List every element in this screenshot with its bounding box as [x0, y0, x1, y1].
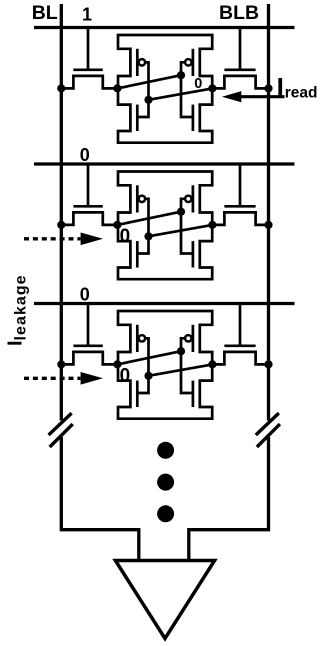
junction dot left gate connector	[144, 96, 152, 104]
bitline BL lower segment and bottom bus left part into sense amp	[61, 437, 139, 561]
wordline WL1	[34, 26, 295, 29]
access transistor left (pass gate) gate stem	[87, 304, 90, 346]
cross-coupling wire left inverter gates to node QB	[149, 88, 213, 99]
right inverter PMOS gate plate	[192, 49, 195, 76]
access transistor right (pass gate) gate stem	[239, 28, 242, 70]
cross-coupled inverter pair outline (VDD/GND rails and transistor channels)	[118, 35, 212, 143]
node Q junction dot	[113, 221, 121, 229]
junction dot on BLB	[264, 360, 272, 368]
junction dot left gate connector	[144, 372, 152, 380]
right inverter gate connector wire	[181, 199, 193, 254]
I_read current arrow tail	[240, 95, 285, 98]
right inverter PMOS bubble	[185, 59, 191, 65]
left inverter PMOS gate plate	[136, 49, 139, 76]
right inverter PMOS bubble	[185, 196, 191, 202]
left inverter gate connector wire	[137, 338, 148, 393]
ellipsis dot 3	[157, 505, 174, 522]
left inverter PMOS bubble	[139, 59, 145, 65]
ellipsis dot 1	[157, 442, 174, 459]
left inverter PMOS gate plate	[136, 325, 139, 352]
node Q junction dot	[113, 360, 121, 368]
wordline WL2	[34, 162, 295, 165]
access transistor right (pass gate) gate stem	[239, 164, 242, 206]
cross-coupling wire node Q to right inverter gates	[117, 75, 181, 88]
left inverter PMOS gate plate	[136, 185, 139, 212]
junction dot on BLB	[264, 84, 272, 92]
leakage current arrowhead	[81, 233, 103, 246]
access transistor right channel with stubs and wires to node QB and BLB	[212, 212, 268, 225]
svg-text:BL: BL	[32, 2, 58, 24]
cross-coupling wire node Q to right inverter gates	[117, 351, 181, 364]
left inverter PMOS bubble	[139, 335, 145, 341]
ellipsis dot 2	[157, 474, 174, 491]
node QB junction dot	[208, 360, 216, 368]
SRAM cell 1	[34, 4, 317, 142]
right inverter gate connector wire	[181, 338, 193, 393]
access transistor right (pass gate) gate stem	[239, 304, 242, 346]
junction dot on BL	[57, 84, 65, 92]
break symbol slash 2 on BLB	[257, 424, 280, 447]
left inverter gate connector wire	[137, 62, 148, 117]
wordline WL3	[34, 302, 295, 305]
svg-text:BLB: BLB	[219, 2, 259, 24]
access transistor right gate plate	[224, 344, 255, 347]
junction dot on BL	[57, 221, 65, 229]
junction dot left gate connector	[144, 232, 152, 240]
cross-coupled inverter pair outline (VDD/GND rails and transistor channels)	[118, 311, 212, 419]
access transistor right gate plate	[224, 68, 255, 71]
svg-text:0: 0	[80, 284, 90, 304]
leakage current dashed arrow tail	[24, 377, 81, 380]
bitline BLB upper segment	[267, 4, 270, 421]
sense amplifier triangle	[115, 561, 214, 639]
junction dot right gate connector	[177, 347, 185, 355]
svg-text:Ileakage: Ileakage	[5, 274, 30, 346]
junction dot right gate connector	[177, 208, 185, 216]
junction dot on BL	[57, 360, 65, 368]
access transistor right gate plate	[224, 205, 255, 208]
left inverter gate connector wire	[137, 199, 148, 254]
I_read current arrowhead	[222, 91, 241, 102]
cross-coupling wire node Q to right inverter gates	[117, 212, 181, 225]
access transistor left channel with source/drain stubs and wires to BL and node Q	[61, 212, 118, 225]
right inverter PMOS gate plate	[192, 325, 195, 352]
access transistor left channel with source/drain stubs and wires to BL and node Q	[61, 76, 118, 89]
access transistor left gate plate	[73, 68, 102, 71]
bitline BL upper segment	[60, 4, 63, 421]
svg-text:1: 1	[82, 4, 92, 24]
access transistor left channel with source/drain stubs and wires to BL and node Q	[61, 352, 118, 365]
bitline BLB lower segment and bottom bus right part into sense amp	[189, 437, 269, 561]
svg-text:read: read	[285, 84, 318, 101]
node QB junction dot	[208, 84, 216, 92]
svg-text:0: 0	[80, 145, 90, 165]
svg-text:0: 0	[120, 226, 131, 247]
cross-coupling wire left inverter gates to node QB	[149, 225, 213, 236]
access transistor left gate plate	[73, 344, 102, 347]
node Q junction dot	[113, 84, 121, 92]
junction dot right gate connector	[177, 71, 185, 79]
node QB junction dot	[208, 221, 216, 229]
access transistor right channel with stubs and wires to node QB and BLB	[212, 352, 268, 365]
left inverter NMOS gate plate	[136, 105, 139, 131]
left inverter PMOS bubble	[139, 196, 145, 202]
right inverter PMOS gate plate	[192, 185, 195, 212]
access transistor left (pass gate) gate stem	[87, 164, 90, 206]
access transistor right channel with stubs and wires to node QB and BLB	[212, 76, 268, 89]
cross-coupled inverter pair outline (VDD/GND rails and transistor channels)	[118, 172, 212, 280]
right inverter NMOS gate plate	[192, 381, 195, 407]
svg-text:I: I	[277, 72, 284, 102]
SRAM cell 2	[24, 145, 295, 279]
left inverter NMOS gate plate	[136, 241, 139, 267]
svg-text:0: 0	[120, 365, 131, 386]
access transistor left gate plate	[73, 205, 102, 208]
leakage current dashed arrow tail	[24, 237, 81, 240]
right inverter gate connector wire	[181, 62, 193, 117]
junction dot on BLB	[264, 221, 272, 229]
right inverter PMOS bubble	[185, 335, 191, 341]
left inverter NMOS gate plate	[136, 381, 139, 407]
svg-text:0: 0	[194, 76, 202, 92]
break symbol slash 1 on BLB	[256, 413, 279, 435]
break symbol slash 1 on BL	[49, 413, 72, 435]
cross-coupling wire left inverter gates to node QB	[149, 364, 213, 375]
break symbol slash 2 on BL	[50, 424, 73, 447]
right inverter NMOS gate plate	[192, 105, 195, 131]
SRAM cell 3	[24, 284, 295, 418]
access transistor left (pass gate) gate stem	[87, 28, 90, 70]
right inverter NMOS gate plate	[192, 241, 195, 267]
leakage current arrowhead	[81, 372, 103, 385]
